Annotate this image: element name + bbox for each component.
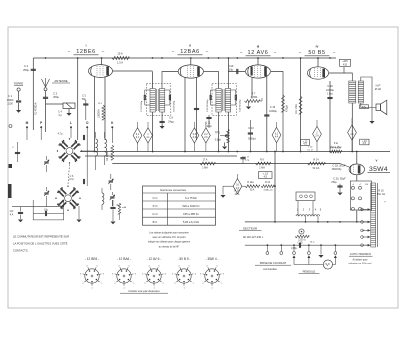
- svg-text:6: 6: [103, 273, 105, 275]
- wire: terre to C1: [18, 91, 20, 100]
- capacitor C3 250pF: [43, 96, 48, 98]
- svg-text:52 mA: 52 mA: [313, 167, 320, 170]
- wire: C10 column down: [227, 58, 229, 89]
- boxed label voice coil: [360, 105, 369, 109]
- svg-text:1: 1: [211, 288, 213, 290]
- svg-text:C 3: C 3: [53, 92, 58, 96]
- svg-text:1 MA: 1 MA: [259, 167, 265, 170]
- wire: 12BA6 grid from IF1: [162, 72, 178, 89]
- svg-text:4: 4: [118, 265, 120, 267]
- svg-text:I: I: [86, 44, 87, 48]
- svg-text:–: –: [240, 50, 243, 55]
- IF transformer T1 dashed can: [146, 84, 171, 116]
- autotransformer taps: [362, 209, 368, 211]
- frame terminal circle: [9, 125, 12, 128]
- svg-text:10000 A: 10000 A: [98, 109, 101, 118]
- svg-text:–: –: [172, 49, 175, 54]
- svg-text:Alt 110-127-230 v: Alt 110-127-230 v: [243, 235, 264, 239]
- svg-text:1 MA: 1 MA: [202, 167, 208, 170]
- dashed control shaft: [68, 165, 70, 185]
- svg-text:5: 5: [216, 265, 218, 267]
- svg-text:7: 7: [133, 283, 135, 285]
- wire: pot to ground: [224, 143, 226, 147]
- wire: speaker return to ground: [371, 101, 373, 121]
- IF transformer T2 dashed can: [212, 84, 237, 116]
- resistor R13 100 ohm: [261, 185, 274, 188]
- cable entry on left frame: [8, 184, 12, 198]
- svg-text:520 a 1620 Kc: 520 a 1620 Kc: [182, 204, 200, 208]
- svg-text:1 Boc: 1 Boc: [327, 94, 334, 96]
- wire: heater rail 3: [112, 163, 340, 165]
- capacitor padder: [82, 135, 84, 140]
- svg-text:50 B5: 50 B5: [308, 50, 325, 56]
- svg-text:C 1: C 1: [8, 94, 13, 98]
- output transformer primary: [349, 81, 356, 103]
- svg-text:µ: µ: [384, 201, 386, 203]
- svg-text:G O: G O: [152, 212, 158, 216]
- alignment diamond D7: [348, 125, 357, 140]
- svg-text:4 µ: 4 µ: [58, 114, 62, 117]
- IF1 core lines: [156, 89, 158, 111]
- svg-text:5000µℓ: 5000µℓ: [248, 138, 256, 141]
- svg-text:R 13: R 13: [265, 182, 271, 184]
- svg-text:- 12 BE6 -: - 12 BE6 -: [85, 257, 99, 261]
- arrow pendule return: [333, 258, 336, 265]
- svg-text:2 A: 2 A: [315, 135, 319, 138]
- IF2 secondary winding: [225, 89, 230, 113]
- svg-text:C 20, 50µF: C 20, 50µF: [333, 178, 346, 181]
- resistor R4 15A on top rail: [112, 56, 129, 59]
- svg-text:C12 82/110µ: C12 82/110µ: [207, 99, 209, 112]
- capacitor 12BA6 cathode bypass: [194, 107, 199, 109]
- svg-text:3: 3: [142, 273, 144, 275]
- svg-text:10000µ: 10000µ: [269, 111, 277, 113]
- svg-text:- 12 BA6 -: - 12 BA6 -: [117, 257, 131, 261]
- wire: IF2 grid to 12AV6: [227, 72, 229, 89]
- wire: AVC rail: [80, 151, 390, 153]
- capacitor C13 5000pF: [249, 120, 251, 152]
- svg-text:R 7: R 7: [252, 93, 257, 96]
- wire: rail3 to 35W4: [340, 164, 349, 168]
- wire: secteur line top: [245, 221, 371, 223]
- svg-text:2,6: 2,6: [204, 137, 208, 139]
- svg-text:0,05µ: 0,05µ: [291, 248, 297, 250]
- tube V3 12AV6 det/AF: [246, 65, 271, 78]
- svg-text:2: 2: [303, 208, 305, 212]
- svg-text:1,1: 1,1: [146, 137, 150, 139]
- svg-text:7: 7: [101, 283, 103, 285]
- wire: transformer secondary to speaker: [361, 103, 376, 108]
- svg-text:4,7µ: 4,7µ: [69, 178, 74, 181]
- svg-text:5: 5: [188, 265, 190, 267]
- pilot lamp R16 shunt: [299, 229, 304, 234]
- node dots power lines: [274, 221, 276, 223]
- wire: antenna lead down: [45, 91, 47, 132]
- svg-text:3: 3: [200, 273, 202, 275]
- trimmer CT4: [110, 196, 114, 198]
- svg-text:5: 5: [320, 208, 322, 212]
- resistor R2 22k vertical: [111, 145, 114, 160]
- svg-text:100A+1w: 100A+1w: [263, 189, 273, 192]
- resistor bias bottom: [118, 203, 120, 214]
- tube V4 50B5 output: [307, 67, 328, 79]
- node dots lower power line: [267, 244, 269, 246]
- svg-text:0,1: 0,1: [136, 137, 140, 139]
- boxed label +1.5v cathode: [259, 172, 273, 179]
- svg-text:–: –: [206, 49, 209, 54]
- svg-text:B C: B C: [153, 220, 158, 224]
- capacitor C14 trimmer IF2: [234, 95, 236, 100]
- capacitor 10uF: [44, 211, 46, 216]
- capacitor C12 trimmer IF2: [209, 95, 211, 100]
- switch wafer S2: [65, 195, 72, 202]
- ground below R7: [248, 101, 250, 106]
- node dots on top rail: [45, 57, 47, 59]
- svg-text:Les valeurs indiquées sont me: Les valeurs indiquées sont mesurées: [149, 232, 189, 235]
- svg-text:35W4: 35W4: [369, 166, 388, 173]
- wire: 12BA6 pins down: [184, 77, 186, 152]
- trimmer CT2: [44, 192, 48, 194]
- svg-text:V: V: [375, 159, 377, 163]
- svg-text:10000µ: 10000µ: [326, 90, 334, 92]
- svg-text:12 AV6: 12 AV6: [248, 50, 269, 56]
- svg-text:C10: C10: [229, 64, 234, 68]
- svg-text:2: 2: [114, 283, 116, 285]
- svg-text:7: 7: [221, 283, 223, 285]
- alignment diamond D8: [233, 179, 242, 194]
- svg-text:47µ: 47µ: [362, 105, 367, 109]
- svg-text:R1 47000 A: R1 47000 A: [35, 102, 38, 115]
- wire: feed from audio section: [274, 152, 276, 222]
- wire: trimmer CT2 to bus: [46, 203, 48, 207]
- svg-text:2: 2: [82, 283, 84, 285]
- svg-text:6: 6: [195, 273, 197, 275]
- resistor R11 grid 50B5 vertical: [300, 58, 302, 152]
- wire: C2 antenna coupling vertical: [32, 58, 34, 130]
- svg-text:4: 4: [206, 265, 208, 267]
- svg-text:P O: P O: [153, 204, 159, 208]
- svg-text:LE COMMUTATEUR EST REPRÉSEN: LE COMMUTATEUR EST REPRÉSENTÉ SUR: [13, 234, 69, 239]
- svg-text:Ø 12ℓ: Ø 12ℓ: [375, 88, 381, 91]
- svg-text:utilisation sur 220v seuℓ: utilisation sur 220v seuℓ: [349, 262, 372, 265]
- tube V1 12BE6 converter: [89, 65, 113, 78]
- capacitor 8uF: [112, 200, 114, 207]
- IF2 primary winding: [216, 89, 221, 113]
- svg-text:4: 4: [148, 265, 150, 267]
- svg-text:~: ~: [69, 151, 71, 153]
- svg-text:0,8: 0,8: [193, 134, 197, 136]
- wire: 12BE6 pin drops: [94, 76, 96, 152]
- switch wafer S1: [66, 148, 73, 155]
- ground cathode row: [222, 186, 224, 194]
- wire: C16 column to power: [339, 191, 341, 193]
- svg-text:9 to: 9 to: [334, 142, 339, 145]
- wire: 50B5 stub to rail: [317, 58, 319, 67]
- wire: 12BE6 grid column: [77, 58, 79, 140]
- svg-text:R 9: R 9: [260, 158, 264, 161]
- svg-text:±4A: ±4A: [122, 206, 126, 209]
- svg-text:L: L: [70, 121, 72, 125]
- svg-text:4 A: 4 A: [275, 136, 279, 139]
- svg-text:4,7µ: 4,7µ: [58, 133, 63, 136]
- wire: 35W4 to power line: [356, 210, 358, 222]
- table gammes couvertes: [143, 186, 216, 225]
- svg-text:C 16: C 16: [327, 85, 333, 88]
- resistor R12 150 ohm: [245, 185, 260, 188]
- svg-text:–: –: [68, 49, 71, 54]
- svg-text:12BA6: 12BA6: [180, 49, 200, 55]
- ground below C1: [18, 103, 20, 110]
- arrow plug pin 2: [307, 255, 310, 258]
- output transformer secondary: [358, 81, 363, 103]
- ground pot: [222, 147, 227, 150]
- terminal on left frame: [9, 164, 13, 168]
- boxed label +115v: [340, 59, 351, 66]
- capacitor C11 100pF: [208, 115, 210, 128]
- oscillator coil L3: [96, 139, 98, 156]
- svg-text:4 A: 4 A: [10, 213, 14, 216]
- svg-text:R 14: R 14: [313, 158, 319, 161]
- svg-text:250µ: 250µ: [53, 95, 59, 99]
- svg-text:6 a 75 Mc: 6 a 75 Mc: [185, 196, 197, 200]
- svg-text:4: 4: [315, 208, 317, 212]
- svg-text:4,5: 4,5: [264, 176, 268, 179]
- autotransformer core: [377, 183, 379, 247]
- svg-text:R 12a: R 12a: [247, 182, 254, 184]
- svg-text:2: 2: [174, 283, 176, 285]
- svg-text:C14 82/110µ: C14 82/110µ: [239, 99, 241, 112]
- alignment diamond D4: [202, 128, 211, 143]
- svg-text:C 13: C 13: [248, 127, 254, 130]
- svg-text:3: 3: [80, 273, 82, 275]
- IF2 core lines: [222, 89, 224, 111]
- svg-text:R 3: R 3: [98, 103, 102, 105]
- svg-text:~: ~: [67, 198, 69, 200]
- wire: 12BA6 plate to IF2: [204, 71, 219, 73]
- svg-text:C 1b: C 1b: [308, 147, 313, 149]
- trimmer CT1: [44, 161, 48, 163]
- wire: pendule loop: [294, 264, 323, 266]
- capacitor C16 10000pF: [329, 81, 331, 152]
- wire: branch to C4 padder: [46, 103, 64, 105]
- wire: osc coil connections: [95, 132, 97, 138]
- svg-text:6: 6: [165, 273, 167, 275]
- svg-text:ANTENNE: ANTENNE: [54, 79, 67, 83]
- alignment diamond D2: [144, 128, 153, 143]
- capacitor C10 10pF grid: [228, 71, 245, 73]
- ground below C4: [68, 108, 70, 113]
- tube V2 12BA6 IF amplifier: [178, 65, 203, 78]
- svg-text:–: –: [299, 50, 302, 55]
- svg-text:H.P: H.P: [376, 84, 381, 88]
- speaker HP: [376, 104, 381, 110]
- svg-text:C’: C’: [12, 147, 15, 149]
- svg-text:C 8: C 8: [169, 117, 174, 120]
- wire: 35W4 cathode up to rail: [356, 152, 358, 165]
- svg-text:2100: 2100: [7, 103, 13, 106]
- svg-text:- 12 AV 6 -: - 12 AV 6 -: [147, 257, 162, 261]
- capacitor C2 250pF: [31, 68, 36, 70]
- svg-text:A bobiner pour: A bobiner pour: [353, 259, 368, 262]
- antenna symbol: [42, 78, 50, 87]
- svg-text:4: 4: [86, 265, 88, 267]
- svg-text:6: 6: [135, 273, 137, 275]
- svg-text:M: M: [26, 121, 29, 125]
- terminal antenne: [44, 88, 47, 91]
- svg-text:4 A: 4 A: [350, 133, 354, 136]
- svg-text:avec un voltmètre H.F. du po: avec un voltmètre H.F. du point: [153, 236, 186, 239]
- svg-text:2,2: 2,2: [204, 134, 208, 136]
- resistor R8 1M on rail3: [200, 162, 215, 165]
- svg-text:4,7MA: 4,7MA: [251, 96, 258, 99]
- svg-text:24µµ: 24µµ: [168, 120, 174, 123]
- svg-text:415: 415: [343, 63, 348, 66]
- svg-text:0,5µΩ: 0,5µΩ: [215, 139, 222, 142]
- svg-text:1: 1: [183, 288, 185, 290]
- svg-text:SECTEUR: SECTEUR: [243, 227, 258, 231]
- svg-text:110: 110: [365, 184, 369, 186]
- wire: IF2 windings down: [218, 112, 220, 152]
- svg-text:17 A: 17 A: [203, 158, 208, 161]
- svg-text:–: –: [102, 49, 105, 54]
- svg-text:250µ: 250µ: [331, 182, 337, 184]
- svg-text:5,84 a 6,4 Mc: 5,84 a 6,4 Mc: [183, 220, 200, 224]
- svg-text:indiqué au châssis pour chaqu: indiqué au châssis pour chaque gamme: [148, 241, 191, 244]
- svg-text:16: 16: [236, 185, 239, 187]
- svg-text:Gammes couvertes: Gammes couvertes: [160, 188, 187, 192]
- ground C20: [337, 193, 342, 196]
- svg-text:C 17: C 17: [244, 157, 249, 159]
- svg-text:4: 4: [178, 265, 180, 267]
- svg-text:AUTO-TRANSFO: AUTO-TRANSFO: [350, 252, 371, 256]
- svg-text:2: 2: [144, 283, 146, 285]
- wire: 50B5 plate to output transformer: [329, 67, 344, 73]
- svg-text:3: 3: [309, 208, 311, 212]
- svg-text:12BE6: 12BE6: [76, 49, 96, 55]
- svg-text:PENDULE: PENDULE: [303, 270, 316, 274]
- svg-text:K: K: [111, 121, 114, 125]
- svg-text:5: 5: [158, 265, 160, 267]
- svg-text:0,1: 0,1: [275, 133, 279, 135]
- wire: 12BE6 plate to IF1: [113, 70, 153, 72]
- svg-text:CONTACTS .: CONTACTS .: [13, 249, 29, 253]
- wire: primary bottom down: [351, 103, 353, 152]
- svg-text:+5: +5: [352, 184, 355, 186]
- capacitor C4 mica: [63, 103, 75, 108]
- svg-text:470µA: 470µA: [286, 105, 289, 112]
- svg-text:- 50 B 5 -: - 50 B 5 -: [177, 257, 190, 261]
- svg-text:10µ: 10µ: [44, 209, 49, 212]
- capacitor C17 0.1uF: [240, 157, 245, 159]
- wire: heater rail 2: [85, 155, 237, 157]
- ground 8uF: [110, 222, 115, 225]
- capacitor C1 10000pF: [16, 100, 21, 102]
- wire: 12AV6 stub to rail: [257, 58, 259, 65]
- wire: R13 to power feed: [274, 185, 275, 187]
- svg-text:155 a 385 Kc: 155 a 385 Kc: [183, 212, 199, 216]
- resistor R17 heater on AVC rail: [330, 150, 342, 153]
- svg-text:C 2: C 2: [24, 64, 29, 68]
- capacitor Ca 4A: [20, 207, 22, 212]
- svg-text:O C: O C: [153, 196, 158, 200]
- svg-text:C9 82/110µ: C9 82/110µ: [174, 100, 176, 112]
- svg-text:1: 1: [147, 134, 149, 136]
- ground speaker: [369, 121, 374, 124]
- wire: 35W4 anode down to connector: [356, 175, 358, 181]
- svg-text:Culots vus par dessous: Culots vus par dessous: [128, 289, 160, 293]
- wire: lamp box drops: [297, 201, 299, 216]
- svg-text:IV: IV: [316, 45, 319, 49]
- alignment diamond D5: [272, 127, 281, 142]
- svg-text:6: 6: [223, 273, 225, 275]
- connector box: [350, 181, 371, 210]
- diode plates inside 12AV6: [251, 67, 253, 76]
- svg-text:1250 Ω: 1250 Ω: [298, 238, 306, 241]
- svg-text:PRISE DE COURANT: PRISE DE COURANT: [260, 261, 287, 265]
- svg-text:0,1µ: 0,1µ: [245, 159, 250, 161]
- svg-text:1: 1: [91, 288, 93, 290]
- svg-text:15 w: 15 w: [310, 242, 315, 244]
- boxed label +10v: [360, 139, 369, 145]
- pendule lamp: [323, 260, 332, 269]
- svg-text:–: –: [333, 50, 336, 55]
- autotransformer winding: [371, 183, 376, 247]
- trimmer CT3: [109, 180, 113, 182]
- capacitor tone corrector left: [17, 142, 19, 162]
- resistor R10 470k vertical: [282, 95, 285, 112]
- capacitor C15 10000pF: [266, 77, 268, 153]
- tube V5 35W4 rectifier: [349, 164, 364, 175]
- ground Ca: [18, 220, 23, 223]
- svg-text:0,6: 0,6: [193, 137, 197, 139]
- svg-text:7: 7: [163, 283, 165, 285]
- wire: IF1 windings down to rail: [152, 112, 154, 152]
- svg-text:III: III: [257, 45, 260, 49]
- svg-text:TERRE: TERRE: [14, 82, 24, 86]
- svg-text:0,1: 0,1: [136, 134, 140, 136]
- wire: bottom bus: [12, 206, 64, 208]
- potentiometer TP1 volume: [227, 129, 230, 143]
- wire: 12BA6 stub to rail: [190, 58, 192, 65]
- ground C8: [161, 123, 163, 126]
- svg-text:C 15: C 15: [270, 106, 276, 109]
- svg-text:R11 1MA: R11 1MA: [295, 104, 298, 114]
- resistor R7 470k: [245, 100, 260, 103]
- node dots on AVC rail: [94, 151, 96, 153]
- svg-text:450/165µ: 450/165µ: [332, 169, 342, 171]
- svg-text:au niveau de la HF.: au niveau de la HF.: [159, 245, 180, 248]
- svg-text:P: P: [40, 121, 43, 125]
- boxed label +12v: [301, 140, 310, 146]
- wire: heater/B+ top rail: [33, 57, 336, 59]
- capacitor C7 trimmer IF1: [143, 95, 145, 100]
- svg-text:O: O: [86, 121, 89, 125]
- resistor R3 10000 ohm vertical: [102, 105, 105, 120]
- decoupling loop: [33, 200, 64, 220]
- svg-text:1: 1: [351, 131, 353, 133]
- ground power: [320, 245, 322, 254]
- IF1 primary winding: [150, 89, 155, 113]
- svg-text:C 18, 30 µF: C 18, 30 µF: [332, 165, 346, 168]
- svg-text:2: 2: [316, 132, 318, 134]
- resistor R14 heater on rail3: [308, 162, 326, 165]
- wire: drops to outlet terminals: [266, 245, 268, 251]
- svg-text:52va 45w: 52va 45w: [331, 146, 342, 149]
- IF1 secondary winding: [160, 89, 165, 113]
- svg-text:1,5 A: 1,5 A: [117, 61, 123, 65]
- svg-text:3: 3: [172, 273, 174, 275]
- svg-text:LA POSITION DE L GALETTES: LA POSITION DE L GALETTES VUES CÔTÉ: [13, 241, 68, 246]
